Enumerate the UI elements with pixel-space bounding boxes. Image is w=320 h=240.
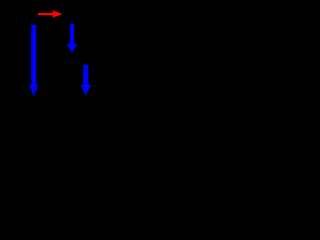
blue arrow 2 (pointing down, upper right) <box>67 24 77 54</box>
background <box>0 0 120 108</box>
blue arrow 1 (long, pointing down, left) <box>29 25 39 97</box>
blue arrow 3 (pointing down, lower right) <box>81 65 91 96</box>
red arrow (horizontal, pointing right) <box>38 10 63 17</box>
